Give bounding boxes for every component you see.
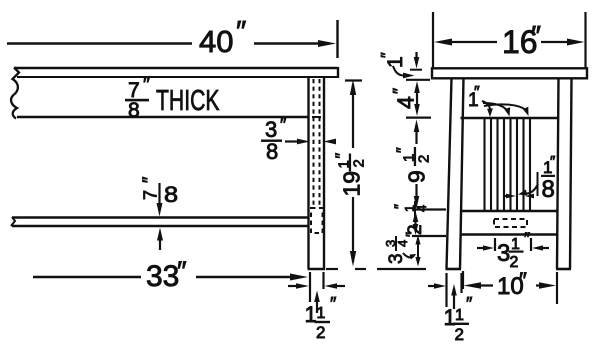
svg-text:1: 1	[511, 236, 520, 253]
dimension 40" arrowhead	[318, 40, 336, 47]
tick at bottom rail bottom	[412, 235, 446, 237]
shelf thickness down arrow	[158, 183, 160, 207]
svg-text:2: 2	[416, 155, 433, 163]
hidden tenon dashed line left	[313, 79, 315, 207]
leg (side view) bottom	[308, 268, 326, 271]
svg-text:19: 19	[339, 171, 365, 197]
dimension 19 1/2" line bottom segment	[352, 197, 354, 262]
1/8" label	[541, 153, 556, 203]
1" curved leader	[393, 66, 403, 76]
svg-text:″: ″	[524, 229, 530, 248]
dimension 33" line left part	[33, 276, 141, 278]
svg-text:″: ″	[531, 20, 541, 51]
svg-text:2: 2	[316, 323, 325, 342]
1" top label rotated	[379, 52, 407, 68]
svg-text:8: 8	[128, 99, 140, 122]
svg-text:3: 3	[497, 240, 510, 267]
1" curved arrow a	[482, 101, 490, 111]
9 1/2" shaft bottom segment	[415, 184, 417, 201]
tick at tabletop top level	[410, 69, 422, 71]
tabletop end view	[432, 68, 587, 78]
end view 1 1/2" label	[444, 294, 474, 344]
shelf 7/8 rotated label	[140, 176, 179, 208]
left leg end view	[447, 78, 452, 269]
3 1/2" right arrow	[542, 247, 549, 249]
svg-text:40: 40	[199, 24, 233, 59]
1 1/2" label left view	[305, 294, 338, 342]
tick at rail bottom level	[406, 116, 431, 118]
1 1/2" right inward arrow	[336, 285, 345, 287]
label 7/8" THICK	[125, 74, 220, 122]
dimension 3/8" right arrow	[332, 140, 336, 142]
19 1/2" rotated label	[334, 153, 368, 197]
1/8" inward arrow left	[504, 195, 508, 197]
3 1/2" left arrow	[477, 247, 485, 249]
4" down arrow	[414, 104, 420, 116]
dimension 3/8" label	[261, 115, 287, 164]
9 1/2" shaft top segment	[415, 128, 417, 144]
shelf thickness up arrow	[159, 237, 161, 250]
svg-text:″: ″	[403, 232, 419, 237]
1" curved arrow c	[484, 104, 526, 110]
leg width extension line left	[309, 272, 311, 302]
3 1/2" label	[497, 229, 530, 271]
bottom rail bottom edge	[460, 233, 558, 235]
dimension 3/8" left arrow	[285, 140, 299, 142]
19 1/2" bottom arrowhead	[350, 251, 356, 267]
svg-text:″: ″	[140, 176, 160, 183]
end view leg width ext line left	[445, 273, 447, 307]
10" right extension line	[556, 272, 558, 304]
4" label rotated	[390, 88, 419, 109]
1/8" curved leader	[522, 184, 538, 194]
extension line right of 40"	[336, 20, 338, 58]
svg-text:″: ″	[466, 294, 473, 314]
shelf left break	[11, 217, 15, 226]
1 1/2" up arrow	[316, 298, 318, 313]
svg-text:″: ″	[550, 153, 556, 170]
svg-text:1: 1	[455, 307, 464, 324]
9 1/2" rotated label	[395, 147, 433, 183]
4" shaft	[416, 90, 418, 107]
floor dash-dot line	[326, 268, 338, 270]
svg-text:1: 1	[305, 302, 317, 327]
19 1/2" top tick	[345, 79, 362, 81]
svg-text:8: 8	[542, 176, 555, 203]
top rail bottom edge	[461, 117, 559, 119]
svg-text:″: ″	[474, 84, 480, 101]
svg-text:1: 1	[317, 305, 326, 322]
3 3/4" rotated label	[383, 232, 419, 264]
hidden tenon cap dash	[312, 116, 321, 118]
svg-text:2: 2	[510, 254, 519, 271]
svg-text:″: ″	[390, 88, 409, 94]
1" curved arrow b	[483, 103, 508, 111]
svg-text:″: ″	[236, 16, 246, 48]
leg (side view) left edge	[307, 78, 309, 269]
shelf top line	[12, 216, 309, 218]
2 1/4" down arrow	[413, 224, 419, 235]
tabletop right end	[337, 67, 339, 78]
svg-text:7: 7	[141, 190, 161, 200]
svg-text:2: 2	[455, 325, 464, 344]
svg-text:″: ″	[334, 153, 351, 159]
svg-text:2: 2	[351, 159, 368, 167]
4" up arrow	[414, 81, 420, 93]
tabletop side view top line	[14, 67, 338, 70]
svg-text:″: ″	[379, 52, 396, 58]
end view leg width ext line right	[460, 273, 462, 293]
3 3/4" curved leader	[403, 253, 414, 257]
3 3/4" down arrowhead	[415, 257, 420, 267]
9 1/2" up arrow	[414, 120, 420, 133]
16" label	[502, 20, 541, 60]
10" label	[497, 268, 527, 300]
svg-text:″: ″	[177, 256, 187, 286]
svg-text:″: ″	[143, 74, 150, 96]
16" right extension line	[584, 12, 586, 68]
9 1/2" down arrow	[414, 196, 420, 209]
svg-text:4: 4	[414, 205, 429, 212]
apron bottom line	[17, 116, 310, 118]
10" dimension line	[472, 284, 493, 286]
shelf bottom line	[12, 225, 309, 227]
bottom rail top edge	[460, 210, 558, 212]
leg (side view) right edge	[323, 78, 325, 269]
3 3/4" shaft	[417, 241, 419, 259]
19 1/2" top arrowhead	[350, 80, 356, 96]
svg-text:″: ″	[280, 115, 287, 135]
svg-text:THICK: THICK	[156, 85, 220, 117]
3 3/4" up arrowhead	[415, 235, 420, 245]
dimension 19 1/2" line top segment	[352, 84, 354, 148]
dimension 40" line right part	[254, 42, 327, 44]
end view 1 1/2" up arrow	[453, 292, 455, 309]
svg-text:4: 4	[395, 240, 410, 247]
tabletop side view second line	[17, 76, 338, 78]
svg-text:8: 8	[164, 183, 178, 207]
2 1/4" rotated label	[391, 201, 429, 235]
tick at tabletop bottom level	[406, 79, 430, 81]
svg-text:″: ″	[330, 294, 337, 314]
hidden tenon dashed line right	[319, 79, 321, 207]
svg-text:″: ″	[391, 204, 407, 209]
svg-text:″: ″	[519, 268, 527, 293]
end view 1 1/2" left inward arrow	[428, 285, 436, 287]
svg-text:4: 4	[393, 96, 419, 109]
right leg end view	[557, 78, 559, 269]
svg-text:33: 33	[146, 260, 179, 293]
1/8" inward arrow right	[525, 194, 534, 199]
10" left extension line	[462, 271, 464, 289]
dimension 33" label	[146, 256, 187, 293]
16" dimension line with arrows	[444, 41, 497, 43]
1/8" tick	[537, 172, 539, 196]
dimension 40" line left part	[7, 42, 192, 44]
dimension 33" line right part with arrow	[196, 276, 296, 278]
1 1/2" left inward arrow	[288, 285, 298, 287]
svg-text:9: 9	[404, 170, 430, 183]
break squiggle left end	[11, 68, 19, 119]
svg-text:″: ″	[395, 147, 412, 153]
dimension 40" label	[199, 16, 246, 59]
2 1/4" shaft	[414, 218, 416, 228]
svg-text:8: 8	[266, 139, 278, 164]
16" left extension line	[432, 12, 434, 68]
tick at bottom rail top	[412, 208, 446, 210]
3 1/2" right tick	[530, 238, 532, 251]
2 1/4" up arrow	[413, 211, 419, 222]
3 1/2" left tick	[494, 238, 496, 251]
hidden mortise dashed box	[311, 208, 323, 233]
1" down arrow	[415, 52, 417, 60]
slats	[485, 118, 531, 211]
leg width extension line right	[322, 272, 324, 289]
1" slat label	[468, 84, 480, 111]
hidden tenon dashed rect	[494, 219, 527, 227]
